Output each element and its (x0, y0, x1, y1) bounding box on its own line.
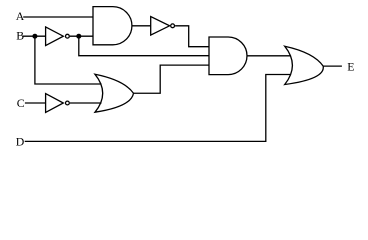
wire D up to OR2 input 2 (25, 75, 290, 142)
wire NOT2 output down to AND2 input 1 (175, 26, 209, 47)
wire AND1 output to NOT2 (132, 25, 151, 27)
wire C to NOT3 (25, 102, 46, 104)
wire NOT1 output to AND1 (70, 35, 93, 37)
wire B to NOT1 (23, 35, 46, 37)
svg-text:D: D (16, 135, 25, 149)
AND gate U1 (top) (93, 7, 132, 45)
svg-text:A: A (16, 9, 25, 23)
wire from dot after NOT1 down to AND2 input 2 (79, 36, 209, 56)
wire AND2 output to OR2 input 1 (247, 55, 291, 57)
AND gate U3 (middle right) (209, 37, 247, 75)
OR gate U4 (output) (285, 46, 324, 84)
inverter NOT1 on B (46, 27, 64, 46)
svg-text:E: E (347, 59, 354, 73)
junction dot after NOT1 (76, 34, 81, 39)
wire from dot on B down to OR1 input 1 (35, 36, 102, 84)
svg-text:C: C (17, 96, 25, 110)
inverter NOT2 after AND1 (151, 17, 170, 36)
OR gate U2 (lower middle) (95, 74, 134, 112)
wire OR1 output up to AND2 input 3 (134, 65, 209, 93)
inverter NOT3 on C (46, 94, 64, 113)
wire A to AND1 (23, 16, 93, 18)
wire OR2 output to E (323, 65, 342, 67)
wire NOT3 output to OR1 input 2 (70, 102, 102, 104)
junction dot on B line (32, 34, 37, 39)
